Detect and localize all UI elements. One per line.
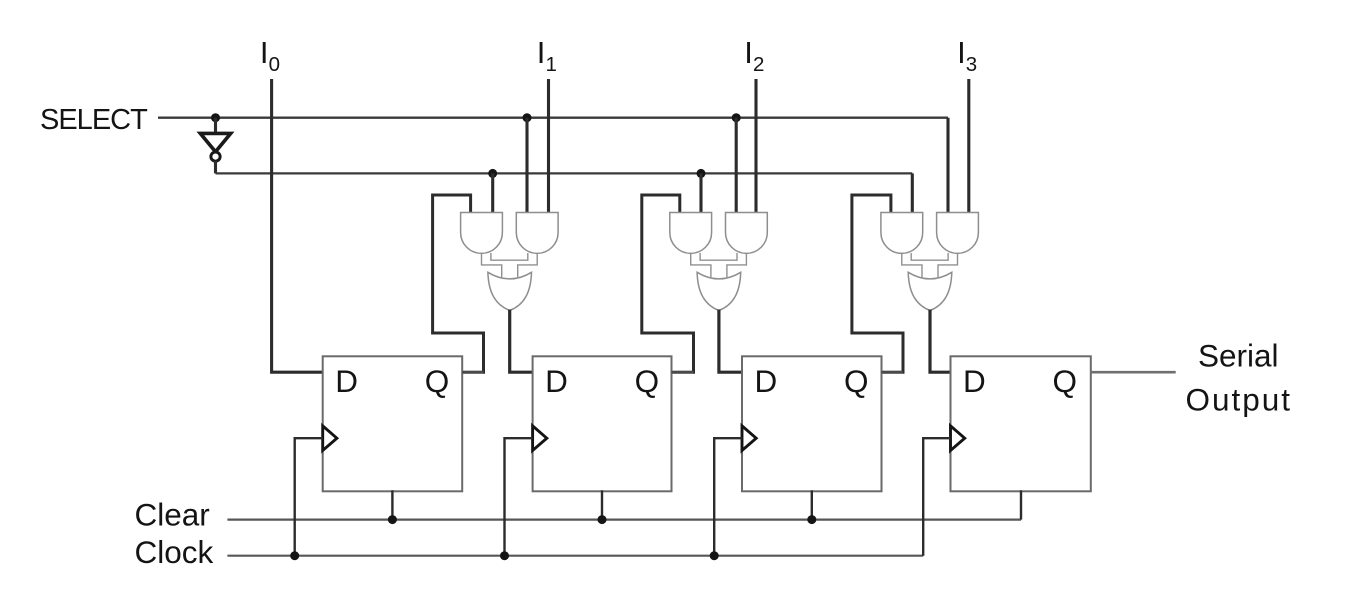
flip-flop U2 box — [533, 356, 672, 491]
wire clear stub FF2 — [601, 490, 603, 519]
node clear junction FF1 — [388, 515, 397, 524]
svg-text:Serial: Serial — [1198, 338, 1279, 374]
wire select drop to mux3 — [946, 118, 949, 215]
wire inverted-select drop to mux3 — [911, 173, 914, 214]
wire I2 input line — [754, 79, 757, 215]
svg-text:D: D — [545, 363, 568, 399]
svg-text:D: D — [755, 363, 778, 399]
wire select drop to mux1 — [525, 118, 528, 215]
svg-text:Clock: Clock — [135, 534, 214, 570]
wire Clock bus — [227, 555, 923, 557]
wire Q output stub FF2 — [672, 371, 694, 374]
wire mux1 AND-to-OR connector — [482, 251, 538, 278]
node clear junction FF2 — [598, 515, 607, 524]
label D of flip-flop U2 — [545, 363, 568, 399]
node select-mux1 junction — [523, 113, 532, 122]
clock triangle of flip-flop U3 — [742, 426, 756, 451]
wire Q2 feedback staircase to mux3 — [852, 195, 903, 372]
clock triangle of flip-flop U2 — [533, 426, 547, 451]
svg-text:0: 0 — [269, 53, 280, 76]
wire I1 input line — [547, 79, 550, 215]
wire clear stub FF3 — [811, 490, 813, 519]
node clock junction FF1 — [290, 551, 299, 560]
label I0 — [260, 35, 280, 76]
label D of flip-flop U3 — [755, 363, 778, 399]
OR gate mux3 — [908, 272, 952, 310]
wire inverter output stub — [214, 161, 217, 174]
flip-flop U3 box — [742, 356, 882, 491]
wire I3 input line — [967, 79, 970, 215]
label Q of flip-flop U4 — [1053, 363, 1078, 399]
label D of flip-flop U4 — [963, 363, 986, 399]
flip-flop U4 box — [951, 356, 1091, 491]
wire clear riser FF4 — [1020, 490, 1022, 519]
svg-text:D: D — [963, 363, 986, 399]
wire Clear bus — [227, 518, 1021, 520]
wire select drop to mux2 — [735, 118, 738, 215]
node clock junction FF3 — [710, 551, 719, 560]
svg-text:Q: Q — [425, 363, 450, 399]
svg-text:Q: Q — [1053, 363, 1078, 399]
node select-mux2 junction — [732, 113, 741, 122]
AND gate mux3a — [881, 213, 923, 254]
label D of flip-flop U1 — [335, 363, 358, 399]
label Serial — [1198, 338, 1279, 374]
label Q of flip-flop U3 — [844, 363, 869, 399]
flip-flop U1 box — [323, 356, 463, 491]
wire mux3 output to D of FF4 — [930, 310, 953, 373]
AND gate mux3b — [937, 213, 979, 254]
svg-text:2: 2 — [753, 53, 764, 76]
clock triangle of flip-flop U1 — [323, 426, 337, 451]
label Output — [1186, 382, 1293, 418]
node clock junction FF2 — [500, 551, 509, 560]
wire clock riser FF1 — [295, 438, 323, 556]
wire SELECT bus — [158, 117, 948, 119]
AND gate mux1b — [516, 213, 558, 254]
svg-text:3: 3 — [966, 53, 977, 76]
wire mux1 output to D of FF2 — [510, 310, 535, 373]
svg-text:Q: Q — [844, 363, 869, 399]
AND gate mux1a — [461, 213, 503, 254]
svg-text:1: 1 — [546, 53, 557, 76]
wire Q1 feedback staircase to mux2 — [642, 195, 694, 372]
wire clock riser FF2 — [505, 438, 533, 556]
svg-text:I: I — [744, 35, 753, 70]
node invselect-mux2 junction — [697, 169, 706, 178]
svg-text:I: I — [260, 35, 269, 70]
wire serial output — [1091, 371, 1176, 374]
svg-text:SELECT: SELECT — [40, 104, 148, 136]
svg-text:Clear: Clear — [135, 497, 210, 533]
svg-text:D: D — [335, 363, 358, 399]
label I2 — [744, 35, 764, 76]
wire mux2 AND-to-OR connector — [691, 251, 747, 278]
wire inverter input stub — [214, 118, 217, 133]
wire Q output stub FF1 — [462, 371, 483, 374]
wire clock riser FF4 — [923, 438, 950, 556]
label Q of flip-flop U1 — [425, 363, 450, 399]
node select-inverter junction — [211, 113, 220, 122]
svg-text:I: I — [537, 35, 546, 70]
inverter U1 — [200, 133, 230, 161]
label I1 — [537, 35, 557, 76]
wire mux3 AND-to-OR connector — [902, 251, 958, 278]
label SELECT — [40, 104, 148, 136]
label I3 — [957, 35, 977, 76]
wire Q0 feedback staircase to mux1 — [433, 195, 484, 372]
label Clock — [135, 534, 214, 570]
AND gate mux2b — [726, 213, 768, 254]
svg-text:I: I — [957, 35, 966, 70]
wire Q output stub FF3 — [882, 371, 904, 374]
svg-text:Q: Q — [635, 363, 660, 399]
wire mux2 output to D of FF3 — [719, 310, 744, 373]
OR gate mux2 — [697, 272, 741, 310]
svg-text:Output: Output — [1186, 382, 1293, 418]
OR gate mux1 — [488, 272, 532, 310]
wire clear stub FF1 — [391, 490, 393, 519]
wire inverted-select bus — [216, 172, 913, 174]
AND gate mux2a — [670, 213, 712, 254]
label Clear — [135, 497, 210, 533]
node invselect-mux1 junction — [488, 169, 497, 178]
node clear junction FF3 — [807, 515, 816, 524]
wire clock riser FF3 — [714, 438, 742, 556]
wire inverted-select drop to mux2 — [699, 173, 702, 214]
wire inverted-select drop to mux1 — [491, 173, 494, 214]
label Q of flip-flop U2 — [635, 363, 660, 399]
wire I0 input line — [272, 79, 325, 372]
clock triangle of flip-flop U4 — [951, 426, 965, 451]
